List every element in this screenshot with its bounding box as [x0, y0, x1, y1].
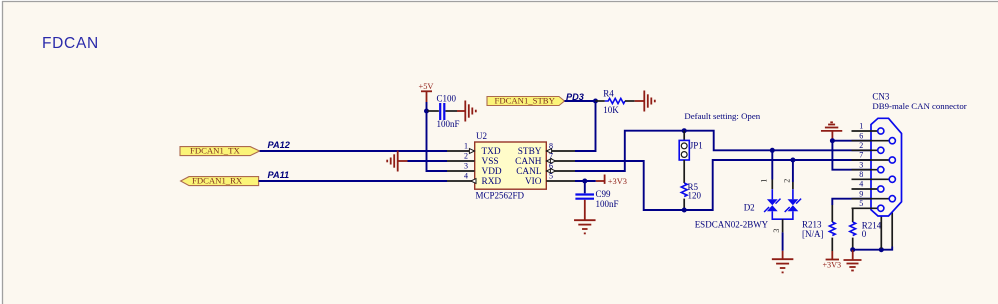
svg-text:2: 2: [464, 152, 468, 161]
svg-text:CANL: CANL: [516, 167, 542, 177]
junction R5 bottom: [682, 208, 687, 213]
ground (D2): [772, 251, 794, 273]
svg-text:VIO: VIO: [525, 177, 542, 187]
svg-text:7: 7: [859, 151, 863, 160]
svg-text:8: 8: [549, 142, 553, 151]
svg-text:120: 120: [688, 190, 702, 200]
svg-text:FDCAN1_TX: FDCAN1_TX: [190, 145, 240, 155]
svg-text:[N/A]: [N/A]: [802, 229, 824, 239]
junction +5V/C100: [424, 109, 429, 114]
svg-text:CANH: CANH: [515, 157, 542, 167]
svg-text:FDCAN: FDCAN: [42, 35, 99, 52]
power +5V: [419, 82, 434, 102]
svg-text:TXD: TXD: [482, 147, 501, 157]
svg-text:PA12: PA12: [268, 140, 291, 150]
pin 3 VDD: [447, 162, 475, 171]
svg-text:6: 6: [549, 162, 553, 171]
wire CANH: [575, 160, 871, 210]
wire shield: [853, 247, 893, 250]
power +3V3 (VIO): [596, 175, 627, 186]
port FDCAN1_TX: [180, 145, 260, 155]
ground (C99): [574, 200, 596, 234]
ground (DB9 pins 3,6): [821, 122, 842, 140]
pin 7 CN3: [852, 151, 896, 163]
shield pin 10: [880, 216, 882, 248]
svg-text:VSS: VSS: [482, 157, 499, 167]
junction STBY/R4: [593, 99, 598, 104]
op-amp U2 body: [475, 131, 547, 200]
svg-text:100nF: 100nF: [596, 199, 619, 209]
svg-text:+3V3: +3V3: [608, 177, 627, 186]
svg-text:PA11: PA11: [268, 170, 290, 180]
wire pin9: [832, 199, 871, 205]
svg-text:+5V: +5V: [419, 82, 434, 91]
svg-text:FDCAN1_STBY: FDCAN1_STBY: [495, 95, 556, 105]
svg-text:R4: R4: [603, 89, 614, 99]
capacitor C99: [575, 181, 618, 209]
svg-text:MCP2562FD: MCP2562FD: [476, 190, 525, 200]
svg-text:1: 1: [859, 122, 863, 131]
pin 9 CN3: [852, 189, 896, 201]
svg-text:ESDCAN02-2BWY: ESDCAN02-2BWY: [695, 219, 769, 229]
pin 2 CN3: [852, 141, 884, 154]
pin 2 VSS: [447, 152, 475, 161]
wire D2 bottom: [772, 211, 793, 251]
junction GND/pin6: [830, 138, 835, 143]
svg-text:R213: R213: [802, 219, 822, 229]
pin 6 CANL: [546, 162, 575, 174]
pin 1 TXD: [447, 142, 475, 154]
wire GND pin6: [832, 140, 871, 142]
pin 3 CN3: [852, 160, 884, 172]
svg-text:3: 3: [464, 162, 468, 171]
label D2: [695, 202, 769, 229]
pin 5 CN3: [852, 199, 884, 212]
svg-text:5: 5: [859, 199, 863, 208]
wire VSS: [408, 160, 448, 162]
junction shield: [879, 247, 884, 252]
junction D2 pin1: [770, 148, 775, 153]
svg-text:FDCAN1_RX: FDCAN1_RX: [192, 175, 243, 185]
wire CANL: [575, 131, 871, 171]
svg-text:1: 1: [760, 179, 769, 183]
connector CN3 body: [871, 92, 967, 216]
pin 5 VIO: [546, 172, 575, 181]
junction VIO/C99: [582, 179, 587, 184]
pin 8 STBY: [546, 142, 575, 154]
svg-text:7: 7: [549, 152, 553, 161]
diode D2: [760, 150, 793, 199]
svg-text:STBY: STBY: [518, 147, 542, 157]
pin 4 CN3: [852, 180, 884, 192]
diode D2 left element: [764, 199, 780, 212]
svg-text:4: 4: [464, 172, 468, 181]
svg-text:5: 5: [549, 172, 553, 181]
capacitor C100: [428, 93, 460, 129]
svg-text:10K: 10K: [603, 105, 619, 115]
jumper JP1: [679, 131, 703, 160]
resistor R213: [802, 205, 835, 251]
power +3V3 (R213): [822, 251, 841, 269]
svg-text:3: 3: [859, 160, 863, 169]
ground (VSS pin 2): [387, 151, 407, 172]
resistor R214: [850, 208, 882, 249]
svg-text:JP1: JP1: [690, 141, 703, 151]
svg-text:8: 8: [859, 170, 863, 179]
svg-text:C99: C99: [596, 189, 612, 199]
junction D2 pin2: [790, 158, 795, 163]
svg-text:VDD: VDD: [482, 167, 502, 177]
svg-text:RXD: RXD: [482, 177, 502, 187]
shield pin 11: [891, 212, 893, 246]
svg-text:U2: U2: [476, 131, 487, 141]
wire GND pin3: [832, 141, 871, 170]
svg-text:3: 3: [772, 229, 781, 233]
ground (C100): [457, 101, 476, 122]
port FDCAN1_RX: [181, 175, 259, 185]
svg-text:C100: C100: [437, 93, 457, 103]
pin 6 CN3: [852, 131, 896, 143]
svg-text:2: 2: [783, 179, 792, 183]
ground (R214): [844, 250, 862, 271]
svg-text:0: 0: [862, 229, 867, 239]
svg-text:+3V3: +3V3: [822, 260, 841, 269]
svg-text:2: 2: [859, 141, 863, 150]
ground (R4): [635, 91, 655, 112]
wire FDCAN1_RX: [259, 180, 447, 182]
junction R214 bottom: [850, 247, 855, 252]
wire VIO: [575, 180, 596, 182]
wire STBY vertical: [575, 101, 596, 151]
svg-text:Default setting: Open: Default setting: Open: [684, 111, 760, 121]
pin 1 CN3: [852, 122, 884, 135]
pin 7 CANH: [546, 152, 575, 164]
resistor R5: [681, 160, 701, 210]
wire +5V net: [427, 102, 448, 171]
junction JP1 top: [682, 128, 687, 133]
svg-text:1: 1: [464, 142, 468, 151]
resistor R4: [596, 89, 635, 115]
wire FDCAN1_TX: [260, 150, 447, 152]
diode D2 right element: [785, 199, 801, 212]
port FDCAN1_STBY: [487, 95, 565, 105]
pin 8 CN3: [852, 170, 896, 183]
svg-text:9: 9: [859, 189, 863, 198]
svg-text:4: 4: [859, 180, 863, 189]
svg-text:100nF: 100nF: [437, 119, 460, 129]
svg-text:DB9-male CAN connector: DB9-male CAN connector: [872, 101, 966, 111]
svg-text:6: 6: [859, 131, 863, 140]
svg-text:D2: D2: [744, 202, 755, 212]
pin 4 RXD: [447, 172, 476, 184]
wire STBY net: [565, 100, 596, 102]
